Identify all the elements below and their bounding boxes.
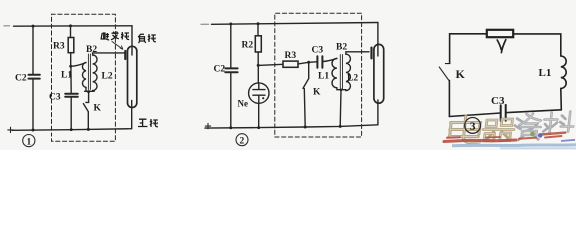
wire: C2' lower lead [230, 73, 232, 128]
svg-text:K: K [313, 88, 321, 98]
switch K [83, 92, 88, 130]
wire: R3 upper lead [70, 26, 72, 38]
wire: top rail circuit 1 [14, 25, 133, 27]
wire: C3 to bottom rail [70, 97, 72, 130]
wire: R3' to node C [298, 62, 309, 64]
wire: node A to C3 [70, 66, 72, 93]
watermark light blue wavy underline [452, 145, 576, 146]
svg-text:C3: C3 [312, 46, 324, 56]
node B (R2/R3/Ne junction) [257, 64, 260, 67]
wire: C2' upper lead [230, 24, 232, 68]
wire: coil bottoms joining bar [85, 87, 95, 91]
plus polarity mark 2 [205, 123, 210, 128]
wire: top rail corner down to flash tube top [131, 26, 133, 55]
svg-text:L1: L1 [61, 71, 72, 81]
capacitor C2 [29, 75, 40, 79]
switch K'' [439, 64, 450, 81]
svg-text:L1: L1 [539, 67, 552, 79]
trigger electrode bar [124, 51, 126, 59]
lead-in dash top left [4, 25, 10, 27]
wire: loop top left [450, 34, 487, 63]
circled number 3 [465, 118, 481, 134]
paper background [0, 0, 576, 150]
node: rail / coils [339, 125, 342, 128]
svg-text:B2: B2 [336, 43, 347, 53]
dashed box circuit 2 [275, 13, 362, 137]
watermark red band under left chars [444, 137, 516, 142]
flash tube V1 envelope [128, 46, 137, 107]
wire: top rail circuit 2 [212, 23, 378, 25]
flash tube V2 envelope [374, 44, 384, 103]
inductor L1 (primary of B2) [82, 63, 86, 88]
resistor R3 [68, 38, 74, 53]
svg-text:1: 1 [27, 137, 32, 147]
svg-text:Ne: Ne [238, 99, 249, 109]
svg-text:R3: R3 [53, 42, 65, 52]
dashed box circuit 1 [52, 14, 116, 141]
label 触发极 (trigger electrode) [101, 32, 129, 40]
watermark char QI white core [482, 119, 515, 141]
lead-in dash top left 2 [201, 23, 209, 25]
node: top rail / C2' [229, 23, 232, 26]
wire: C2 lower lead [32, 79, 34, 130]
node: K top junction [87, 90, 90, 93]
transformer core B2 [88, 54, 90, 90]
svg-text:L2: L2 [102, 72, 113, 82]
node A (R3/C3/L1 junction) [69, 65, 72, 68]
node: bottom rail / C3 [70, 128, 73, 131]
resistor R3' (horizontal) [283, 61, 298, 67]
switch K' [303, 62, 309, 127]
svg-text:C3: C3 [49, 93, 61, 103]
neon lamp Ne [249, 83, 269, 103]
inductor L1'' [561, 56, 566, 88]
wire: R3 lower lead to node A [70, 53, 72, 67]
node: rail / C2' [229, 126, 232, 129]
wire: neon bottom to rail [258, 103, 260, 127]
wire: tube bottom lead [131, 101, 133, 129]
node: bottom rail / K [87, 128, 90, 131]
bottom rail circuit 1 [12, 129, 131, 131]
node: bottom rail / C2 [32, 129, 35, 132]
svg-text:R2: R2 [242, 41, 254, 51]
svg-text:3: 3 [470, 121, 476, 133]
wire: top rail corner to tube 2 top [377, 23, 379, 57]
node: top rail / R3 junction [69, 24, 72, 27]
capacitor C3' (series) [317, 56, 322, 67]
wire: L2' top to trigger bar 2 [346, 52, 369, 54]
flash tube Y (rectangle symbol) [487, 30, 513, 37]
svg-text:2: 2 [240, 136, 245, 146]
trigger electrode gamma glyph [497, 40, 506, 53]
label 正极 (anode) [138, 119, 158, 127]
wire: C2 upper lead [32, 26, 34, 74]
wire: loop top right [513, 34, 560, 56]
wire: coils common to rail [339, 90, 342, 127]
node C (R3'/C3'/K junction) [307, 61, 310, 64]
capacitor C2' [225, 68, 237, 72]
wire: loop bottom left segment [449, 113, 500, 117]
transformer core B2' [340, 55, 342, 91]
wire: loop left up [448, 80, 450, 116]
svg-text:C3: C3 [491, 95, 505, 107]
plus polarity mark [8, 127, 13, 132]
wire: tube 2 bottom lead [377, 100, 379, 125]
watermark char DIAN outline [448, 116, 482, 143]
inductor L2' [346, 54, 351, 90]
watermark char LIAO outline [543, 112, 575, 134]
watermark char LIAO white core [543, 112, 575, 134]
label 负极 (cathode) [138, 34, 156, 43]
svg-text:C2: C2 [214, 65, 226, 75]
wire: node C to C3' [309, 61, 317, 64]
wire: R2 upper lead [257, 24, 259, 36]
wire: node A to L1 top [71, 63, 86, 67]
trigger electrode bar 2 [370, 48, 372, 59]
resistor R2 [255, 36, 261, 52]
wire: node B to neon top [257, 65, 259, 83]
watermark blue dot [538, 133, 543, 138]
svg-text:L1: L1 [318, 72, 329, 82]
watermark char ZI white core [518, 114, 542, 136]
watermark char ZI outline [513, 114, 542, 141]
capacitor C3 [65, 94, 78, 97]
circled number 1 [23, 135, 35, 147]
svg-text:K: K [456, 67, 466, 81]
wire: node B to R3' [258, 64, 283, 65]
watermark char QI outline [482, 119, 515, 141]
wire: R2 lower lead [257, 52, 259, 65]
watermark red strokes under right chars [519, 133, 566, 139]
svg-text:B2: B2 [86, 45, 97, 55]
wire: L2 top to trigger electrode [93, 53, 125, 55]
node: top rail / C2 junction [32, 25, 35, 28]
svg-text:R3: R3 [285, 51, 297, 61]
node: rail / Ne [257, 126, 260, 129]
inductor L1' [332, 58, 337, 87]
node: rail / K' [304, 126, 307, 129]
watermark char DIAN white core [448, 116, 487, 143]
arrow from trigger label to trigger bar [112, 42, 123, 50]
svg-text:K: K [94, 104, 102, 114]
node: top rail / R2 [257, 22, 260, 25]
svg-text:C2: C2 [15, 74, 27, 84]
wire: loop right down [560, 88, 563, 109]
capacitor C3'' [501, 105, 506, 121]
wire: loop bottom right segment [506, 110, 561, 113]
bottom rail circuit 2 [205, 125, 378, 128]
watermark green dot [530, 132, 535, 137]
wire: C3' to L1' top [323, 58, 337, 61]
circled number 2 [236, 134, 248, 146]
inductor L2 (secondary of B2) [93, 55, 97, 91]
node: coils common [340, 89, 343, 92]
wire: coil bottoms join [337, 88, 346, 91]
svg-text:L2: L2 [347, 74, 358, 84]
